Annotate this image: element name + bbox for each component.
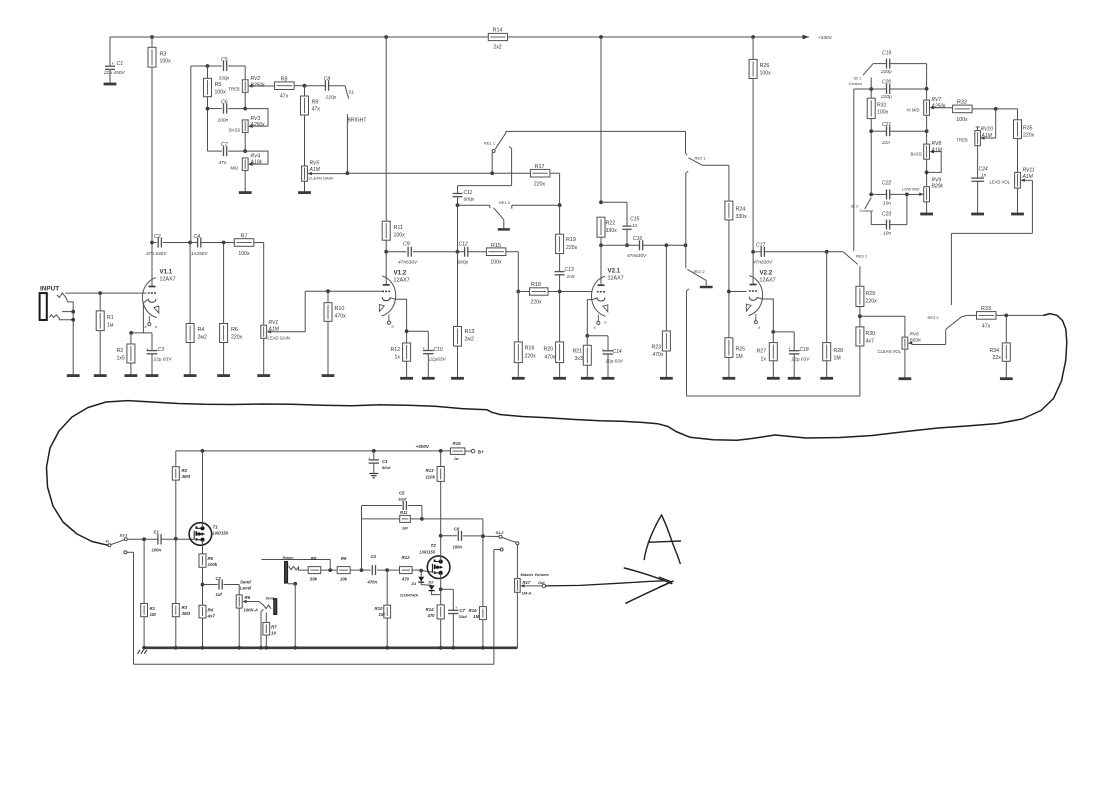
svg-text:LEAD VOL: LEAD VOL <box>990 179 1011 184</box>
svg-text:R5: R5 <box>208 556 214 561</box>
svg-text:RE1 2: RE1 2 <box>499 200 511 205</box>
svg-text:LND150: LND150 <box>213 531 229 536</box>
svg-text:D1: D1 <box>412 582 417 586</box>
svg-text:Send: Send <box>266 597 275 601</box>
svg-text:47n630V: 47n630V <box>627 253 647 259</box>
svg-text:B+: B+ <box>478 449 484 454</box>
svg-text:R7: R7 <box>241 233 248 239</box>
svg-text:R14: R14 <box>426 607 435 612</box>
svg-text:100x: 100x <box>394 232 406 238</box>
svg-text:470x: 470x <box>653 352 664 358</box>
svg-text:+: + <box>602 348 605 353</box>
svg-text:22µ 63V: 22µ 63V <box>153 356 173 362</box>
svg-text:A250k: A250k <box>931 103 947 109</box>
svg-text:4x7: 4x7 <box>207 614 216 619</box>
svg-text:R16: R16 <box>469 608 478 613</box>
svg-text:R4: R4 <box>208 608 214 613</box>
svg-text:A1M: A1M <box>1022 174 1034 180</box>
svg-text:RV2: RV2 <box>251 76 261 82</box>
svg-text:R11: R11 <box>394 225 404 231</box>
svg-text:R10: R10 <box>375 606 384 611</box>
svg-text:220x: 220x <box>534 181 546 187</box>
svg-text:100k: 100k <box>208 562 218 567</box>
svg-text:R6: R6 <box>231 327 238 333</box>
svg-text:Contour: Contour <box>860 209 874 213</box>
svg-text:4x7: 4x7 <box>866 339 874 345</box>
svg-text:47x: 47x <box>982 323 991 329</box>
svg-text:220x: 220x <box>530 300 542 306</box>
svg-text:R23: R23 <box>652 344 662 350</box>
svg-text:470x: 470x <box>545 354 556 360</box>
svg-text:33uf: 33uf <box>459 614 468 619</box>
svg-text:1n: 1n <box>632 223 638 229</box>
svg-text:A1M: A1M <box>931 147 943 153</box>
svg-text:A10k: A10k <box>250 160 263 166</box>
svg-text:R2: R2 <box>182 468 188 473</box>
svg-text:RV1: RV1 <box>269 320 279 326</box>
svg-text:CLEAN GAIN: CLEAN GAIN <box>309 175 333 180</box>
svg-text:B50K: B50K <box>910 338 923 344</box>
svg-text:C5: C5 <box>221 57 228 63</box>
svg-text:1uf: 1uf <box>216 592 223 597</box>
svg-text:a: a <box>145 325 147 329</box>
svg-text:3x3: 3x3 <box>575 356 583 362</box>
svg-text:1M-A: 1M-A <box>522 590 532 595</box>
svg-text:S2 2: S2 2 <box>851 204 859 208</box>
svg-text:R28: R28 <box>834 348 844 354</box>
svg-text:10µ 63V: 10µ 63V <box>606 358 624 363</box>
svg-text:47n630V: 47n630V <box>398 260 418 266</box>
svg-text:3M3: 3M3 <box>182 611 191 616</box>
svg-text:RE3 1: RE3 1 <box>856 253 868 258</box>
svg-text:1M: 1M <box>150 612 156 617</box>
svg-text:C23: C23 <box>882 211 891 217</box>
svg-text:R30: R30 <box>866 331 876 337</box>
svg-text:RV5: RV5 <box>310 161 320 167</box>
svg-text:+: + <box>146 347 149 352</box>
svg-text:RV4: RV4 <box>251 153 261 159</box>
svg-text:BASS: BASS <box>911 151 922 156</box>
svg-text:S2 1: S2 1 <box>854 77 862 81</box>
svg-text:2x1N4742A: 2x1N4742A <box>399 593 419 597</box>
svg-text:Level: Level <box>240 585 252 590</box>
svg-text:RV7: RV7 <box>932 97 942 103</box>
svg-text:47x: 47x <box>312 107 321 113</box>
svg-text:C17: C17 <box>756 242 765 248</box>
svg-text:Out: Out <box>538 581 545 585</box>
svg-text:R6: R6 <box>245 595 251 600</box>
svg-text:S1-1: S1-1 <box>120 534 128 538</box>
svg-text:A1M: A1M <box>309 167 321 173</box>
svg-text:A250x: A250x <box>250 122 266 128</box>
svg-text:50uf: 50uf <box>382 465 391 470</box>
svg-text:100x: 100x <box>760 71 772 77</box>
svg-text:1м: 1м <box>107 323 114 329</box>
svg-text:R4: R4 <box>198 327 205 333</box>
svg-text:B20k: B20k <box>932 184 944 190</box>
svg-text:22n: 22n <box>881 140 890 146</box>
svg-text:100n: 100n <box>218 117 229 123</box>
svg-text:330x: 330x <box>606 228 618 234</box>
svg-text:C4: C4 <box>371 554 377 559</box>
svg-text:+330V: +330V <box>818 35 833 41</box>
svg-text:R17: R17 <box>523 580 531 585</box>
svg-text:R12: R12 <box>401 555 410 560</box>
svg-text:470: 470 <box>427 613 436 618</box>
svg-text:Contour: Contour <box>849 82 863 86</box>
svg-text:R12: R12 <box>391 347 401 353</box>
svg-text:C1: C1 <box>154 530 160 535</box>
svg-text:47n630V: 47n630V <box>753 260 773 266</box>
svg-text:10: 10 <box>271 631 276 636</box>
svg-text:330p: 330p <box>219 75 230 81</box>
svg-text:R11: R11 <box>400 510 408 515</box>
svg-text:A1M: A1M <box>268 326 280 332</box>
svg-text:1M: 1M <box>834 356 841 362</box>
svg-text:T2: T2 <box>431 543 437 548</box>
svg-text:R35: R35 <box>1023 125 1033 131</box>
svg-text:R14: R14 <box>493 28 503 34</box>
svg-text:10k: 10k <box>340 577 348 582</box>
svg-text:1w: 1w <box>454 457 459 461</box>
svg-text:100x: 100x <box>238 251 250 257</box>
svg-text:TREB: TREB <box>229 86 240 91</box>
svg-text:1M: 1M <box>379 612 385 617</box>
svg-text:C22: C22 <box>882 180 891 186</box>
svg-text:R26: R26 <box>760 63 770 69</box>
svg-text:TREB: TREB <box>957 138 968 143</box>
svg-text:C4: C4 <box>194 234 201 240</box>
svg-text:C24: C24 <box>979 166 988 172</box>
svg-text:V1.2: V1.2 <box>394 270 407 277</box>
svg-text:R13: R13 <box>426 468 435 473</box>
svg-text:RE1 1: RE1 1 <box>484 141 496 146</box>
svg-text:220p: 220p <box>880 69 892 75</box>
svg-text:50k: 50k <box>310 577 318 582</box>
svg-text:BASS: BASS <box>229 127 240 132</box>
svg-text:R8: R8 <box>281 76 288 82</box>
svg-text:C15: C15 <box>630 217 639 223</box>
svg-text:100x: 100x <box>877 110 889 116</box>
svg-text:1n5: 1n5 <box>567 274 575 280</box>
svg-text:RV3: RV3 <box>251 116 261 122</box>
svg-text:+300V: +300V <box>416 444 430 449</box>
svg-text:BRIGHT: BRIGHT <box>348 118 367 124</box>
svg-text:a: a <box>758 325 760 329</box>
svg-text:LOW MID: LOW MID <box>902 186 920 191</box>
svg-text:R1: R1 <box>107 315 114 321</box>
svg-text:3M3: 3M3 <box>182 474 191 479</box>
svg-text:100x: 100x <box>160 59 172 65</box>
svg-text:R3: R3 <box>182 605 188 610</box>
svg-text:1x5: 1x5 <box>117 356 125 362</box>
svg-text:b: b <box>155 325 157 329</box>
svg-text:C20: C20 <box>882 79 891 85</box>
svg-text:C5: C5 <box>399 491 405 496</box>
svg-text:R13: R13 <box>465 329 475 335</box>
svg-text:10n: 10n <box>883 201 891 207</box>
svg-text:1x: 1x <box>395 355 401 361</box>
svg-text:C7: C7 <box>460 608 466 613</box>
svg-text:C1: C1 <box>117 61 124 67</box>
svg-text:1n250V: 1n250V <box>191 251 208 257</box>
svg-text:S1-2: S1-2 <box>496 531 505 535</box>
svg-text:220x: 220x <box>866 298 878 304</box>
svg-text:C11: C11 <box>464 190 473 196</box>
svg-text:R33: R33 <box>981 306 991 312</box>
svg-text:220p: 220p <box>325 95 337 101</box>
svg-text:C8: C8 <box>324 76 331 82</box>
svg-text:470n: 470n <box>367 579 378 584</box>
svg-text:1M: 1M <box>736 354 743 360</box>
svg-text:C21: C21 <box>882 122 891 128</box>
svg-text:V1.1: V1.1 <box>160 269 173 276</box>
svg-text:C10: C10 <box>434 347 443 353</box>
svg-text:12AX7: 12AX7 <box>160 277 176 283</box>
svg-text:C12: C12 <box>459 241 468 247</box>
svg-text:RV9: RV9 <box>932 177 942 183</box>
svg-text:V2.1: V2.1 <box>608 268 621 275</box>
svg-text:220x: 220x <box>231 335 243 341</box>
svg-text:MID: MID <box>231 165 239 170</box>
svg-text:680p: 680p <box>464 196 475 202</box>
svg-text:470x: 470x <box>335 314 347 320</box>
svg-text:100x: 100x <box>215 89 227 95</box>
svg-text:C16: C16 <box>633 236 642 242</box>
svg-text:R31: R31 <box>877 102 887 108</box>
svg-text:220x: 220x <box>566 245 578 251</box>
svg-text:R24: R24 <box>736 207 746 213</box>
svg-text:RE2 2: RE2 2 <box>694 269 706 274</box>
svg-text:Return: Return <box>283 556 294 560</box>
svg-text:2x2: 2x2 <box>493 44 501 50</box>
svg-text:470: 470 <box>401 577 410 582</box>
svg-text:110k: 110k <box>426 474 436 479</box>
svg-text:10n: 10n <box>883 231 891 237</box>
svg-text:C18: C18 <box>800 347 809 353</box>
svg-text:C7: C7 <box>221 142 229 148</box>
svg-text:22x: 22x <box>993 355 1002 361</box>
svg-text:LEAD GAIN: LEAD GAIN <box>268 335 290 340</box>
svg-text:22µ 63V: 22µ 63V <box>791 357 811 363</box>
svg-text:C19: C19 <box>882 51 891 57</box>
svg-text:R9: R9 <box>312 99 319 105</box>
svg-text:C9: C9 <box>403 241 410 247</box>
svg-text:R19: R19 <box>566 237 576 243</box>
svg-text:2м2: 2м2 <box>198 335 207 341</box>
svg-text:R15: R15 <box>453 441 462 446</box>
svg-text:100K-A: 100K-A <box>244 607 258 612</box>
svg-text:C3: C3 <box>158 347 165 353</box>
svg-text:100n: 100n <box>152 547 162 552</box>
svg-text:RV10: RV10 <box>981 126 994 132</box>
svg-text:T1: T1 <box>213 525 219 530</box>
svg-text:R9: R9 <box>341 556 347 561</box>
svg-text:RV6: RV6 <box>910 332 920 338</box>
svg-text:220x: 220x <box>525 354 537 360</box>
svg-text:1M: 1M <box>402 526 408 531</box>
svg-text:INPUT: INPUT <box>40 286 59 293</box>
svg-text:22µ63V: 22µ63V <box>428 356 446 362</box>
svg-text:R18: R18 <box>531 282 541 288</box>
svg-text:330x: 330x <box>736 214 748 220</box>
svg-text:C2: C2 <box>154 234 161 240</box>
svg-text:2м2: 2м2 <box>465 337 474 343</box>
svg-text:C13: C13 <box>565 267 574 273</box>
svg-text:R2: R2 <box>117 348 124 354</box>
svg-text:R29: R29 <box>866 291 876 297</box>
svg-text:R32: R32 <box>957 100 967 106</box>
svg-text:A1M: A1M <box>981 133 993 139</box>
svg-text:a: a <box>594 325 596 329</box>
svg-text:V2.2: V2.2 <box>760 270 773 277</box>
svg-text:10pf: 10pf <box>398 497 407 502</box>
svg-text:12AX7: 12AX7 <box>608 276 624 282</box>
svg-text:LND150: LND150 <box>420 549 436 554</box>
svg-text:R1: R1 <box>150 606 156 611</box>
svg-text:100n: 100n <box>453 544 463 549</box>
svg-text:R27: R27 <box>757 349 767 355</box>
svg-text:Master Volume: Master Volume <box>521 572 550 577</box>
svg-text:R3: R3 <box>160 52 167 58</box>
svg-text:1n: 1n <box>981 172 987 178</box>
svg-text:a: a <box>392 325 394 329</box>
svg-text:C2: C2 <box>216 576 222 581</box>
svg-text:C6: C6 <box>221 100 228 106</box>
svg-text:R25: R25 <box>736 347 746 353</box>
svg-text:220p: 220p <box>880 94 892 100</box>
svg-text:B250k: B250k <box>251 82 266 88</box>
svg-text:R20: R20 <box>544 347 554 353</box>
svg-text:100x: 100x <box>956 117 968 123</box>
svg-text:+: + <box>423 346 426 351</box>
svg-text:b: b <box>605 321 607 325</box>
svg-text:RE3 2: RE3 2 <box>928 315 940 320</box>
svg-text:R15: R15 <box>491 243 501 249</box>
svg-text:R22: R22 <box>606 221 616 227</box>
svg-text:100x: 100x <box>490 259 502 265</box>
svg-text:R10: R10 <box>335 306 345 312</box>
svg-text:CLEAN VOL: CLEAN VOL <box>878 349 902 354</box>
svg-text:1x: 1x <box>761 356 767 362</box>
svg-text:C14: C14 <box>613 349 622 355</box>
svg-text:220x: 220x <box>1023 133 1035 139</box>
svg-text:47n 630V: 47n 630V <box>146 251 167 257</box>
svg-text:RE2 1: RE2 1 <box>695 155 707 160</box>
svg-text:R7: R7 <box>271 625 277 630</box>
svg-text:C3: C3 <box>382 459 388 464</box>
svg-text:47x: 47x <box>280 94 289 100</box>
svg-text:HI MID: HI MID <box>907 108 920 113</box>
svg-text:R16: R16 <box>525 346 535 352</box>
svg-text:1M: 1M <box>473 614 479 619</box>
svg-text:+: + <box>788 346 791 351</box>
svg-text:+: + <box>112 61 115 66</box>
svg-text:12AX7: 12AX7 <box>760 278 776 284</box>
svg-text:RV8: RV8 <box>932 141 942 147</box>
svg-text:R5: R5 <box>215 82 222 88</box>
svg-text:S1: S1 <box>349 90 355 95</box>
svg-text:22µ 450V: 22µ 450V <box>103 70 125 76</box>
svg-text:12AX7: 12AX7 <box>394 278 410 284</box>
svg-text:Send: Send <box>240 579 251 584</box>
svg-text:R17: R17 <box>535 164 545 170</box>
svg-text:R8: R8 <box>311 556 317 561</box>
svg-text:R34: R34 <box>990 348 1000 354</box>
svg-text:47n: 47n <box>219 160 227 166</box>
svg-text:R21: R21 <box>573 348 583 354</box>
svg-text:680p: 680p <box>458 260 469 266</box>
svg-text:RV11: RV11 <box>1023 167 1035 173</box>
svg-text:C6: C6 <box>454 526 460 531</box>
